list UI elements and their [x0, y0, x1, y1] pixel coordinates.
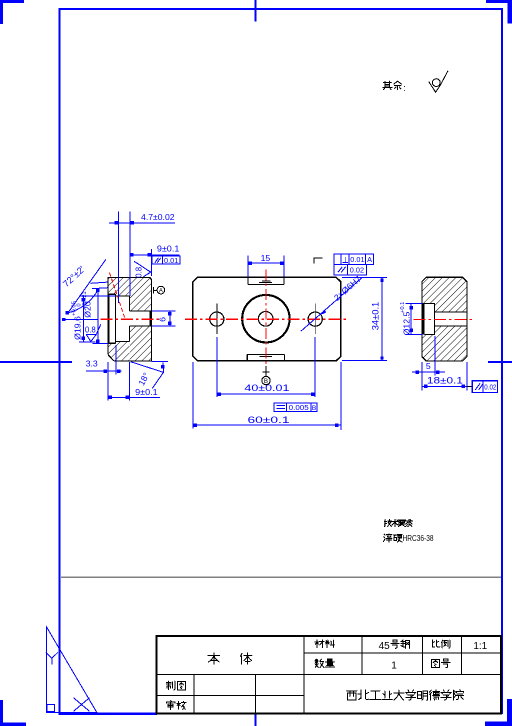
svg-text:1: 1 [391, 661, 397, 672]
corner mark top-left [0, 0, 24, 24]
right view outline [422, 277, 467, 361]
view corner bracket mark [314, 258, 323, 264]
right view horizontal centerline [413, 319, 475, 321]
symmetry tolerance frame 0.005 B [274, 403, 317, 412]
svg-text::: : [403, 83, 406, 93]
dimension 5 [412, 336, 445, 390]
svg-text:1:1: 1:1 [473, 641, 487, 652]
title block grid [156, 636, 501, 714]
svg-text:+0.1: +0.1 [400, 302, 406, 313]
svg-text:0.005: 0.005 [289, 405, 309, 412]
svg-text:0.01: 0.01 [164, 256, 178, 265]
dimension 40±0.01 [217, 337, 315, 397]
label 图号 [431, 659, 439, 667]
right view hatching [422, 277, 467, 361]
svg-text:0.02: 0.02 [484, 385, 496, 392]
svg-text:18±0.1: 18±0.1 [427, 376, 463, 386]
svg-text:34±0.1: 34±0.1 [370, 302, 380, 331]
svg-text:B: B [264, 378, 268, 385]
centering tick bottom [254, 713, 256, 726]
left view outline [108, 277, 152, 361]
svg-text:4.7±0.02: 4.7±0.02 [141, 212, 175, 222]
label 制图 [166, 681, 175, 690]
parallelism frame // 0.02 (right) [472, 381, 497, 393]
surface finish 0.8 (bore) [86, 324, 101, 341]
front view outline [193, 277, 341, 361]
front view center hole circle [258, 312, 273, 327]
left view thick face line (left) [107, 294, 109, 344]
front view bottom notch [247, 355, 284, 361]
dimension 9±0.1 (bottom) [108, 362, 160, 401]
horizontal centerline [101, 318, 159, 320]
drafting triangle symbol [46, 627, 97, 712]
front view big circle [242, 295, 289, 342]
dimension 4.7±0.02 [109, 211, 175, 303]
corner mark bottom-right [485, 699, 512, 726]
svg-text:0.8: 0.8 [135, 267, 144, 278]
corner mark top-right [486, 0, 512, 24]
svg-text:9±0.1: 9±0.1 [157, 244, 180, 254]
corner mark bottom-left [0, 700, 26, 726]
right view thick face line [422, 303, 425, 335]
front view vertical centerline [265, 270, 267, 368]
right view counterbore [424, 303, 434, 334]
left view hatching [108, 278, 151, 361]
front view top notch [248, 277, 284, 284]
title block outer box [156, 636, 501, 714]
dimension 15 [248, 253, 284, 276]
left view taper gauge line (red) [110, 273, 125, 319]
front view left hole [210, 312, 224, 326]
svg-text:45: 45 [379, 641, 391, 652]
angular dimension 72°±2' [61, 259, 108, 321]
roughness symbol [429, 71, 448, 93]
extension lines for bore diameters [79, 296, 116, 344]
svg-text:Ø12.5: Ø12.5 [401, 312, 411, 336]
front view right hole [308, 312, 322, 326]
right view slot hole [435, 311, 467, 313]
svg-text:3.3: 3.3 [86, 359, 98, 369]
dimension 18±0.1 [422, 362, 467, 390]
dimension 60±0.1 [193, 362, 341, 430]
dimension Φ20 [82, 289, 100, 344]
svg-text:0.01: 0.01 [350, 255, 364, 264]
svg-text:15: 15 [261, 253, 271, 263]
centering tick left [0, 361, 72, 363]
dimension Φ19.6 [72, 296, 86, 342]
centering tick top [254, 0, 256, 22]
dimension 9±0.1 (top) [130, 244, 180, 277]
school name 西北工业大学明德学院 [346, 691, 357, 700]
svg-text:0.8: 0.8 [85, 326, 96, 335]
tolerance frame // 0.02 [334, 265, 366, 275]
centering tick right [488, 361, 512, 363]
note 技术要求 [384, 520, 391, 527]
surface finish 0.8 (top face, rotated onto extension line) [134, 261, 151, 277]
tolerance frame ⊥ 0.01 A [334, 254, 373, 265]
svg-text:A: A [367, 255, 372, 264]
dimension 6 [152, 311, 175, 326]
note 其余 (surface roughness) [383, 81, 392, 90]
front view horizontal centerline [185, 318, 346, 320]
leader 2×Φ6H7 [301, 274, 363, 332]
svg-text:B: B [312, 405, 317, 412]
label 审核 [166, 701, 175, 710]
angular dimension 18° [131, 361, 168, 388]
dimension 3.3 [86, 345, 122, 375]
svg-text:60±0.1: 60±0.1 [248, 415, 290, 426]
note 淬硬HRC36-38 [383, 534, 392, 542]
svg-text:0.02: 0.02 [350, 265, 364, 274]
label 比例 [433, 640, 440, 647]
left view thick face line (right) [150, 311, 152, 326]
parallelism frame // 0.01 [152, 256, 180, 264]
label 材料 [315, 640, 324, 648]
leader to tolerance frame [467, 385, 472, 387]
svg-text:9±0.1: 9±0.1 [135, 387, 158, 397]
dimension 34±0.1 [342, 277, 387, 360]
svg-text:5: 5 [426, 361, 431, 371]
datum feature B symbol [262, 366, 270, 385]
dimension Φ12.5 [400, 302, 423, 336]
title 本体 [208, 653, 220, 664]
grey separator line [61, 576, 501, 578]
label 数量 [315, 659, 324, 667]
datum feature A symbol [154, 286, 165, 294]
svg-text:HRC36-38: HRC36-38 [403, 533, 434, 543]
svg-text:A: A [159, 288, 163, 294]
svg-text:6: 6 [158, 317, 168, 322]
